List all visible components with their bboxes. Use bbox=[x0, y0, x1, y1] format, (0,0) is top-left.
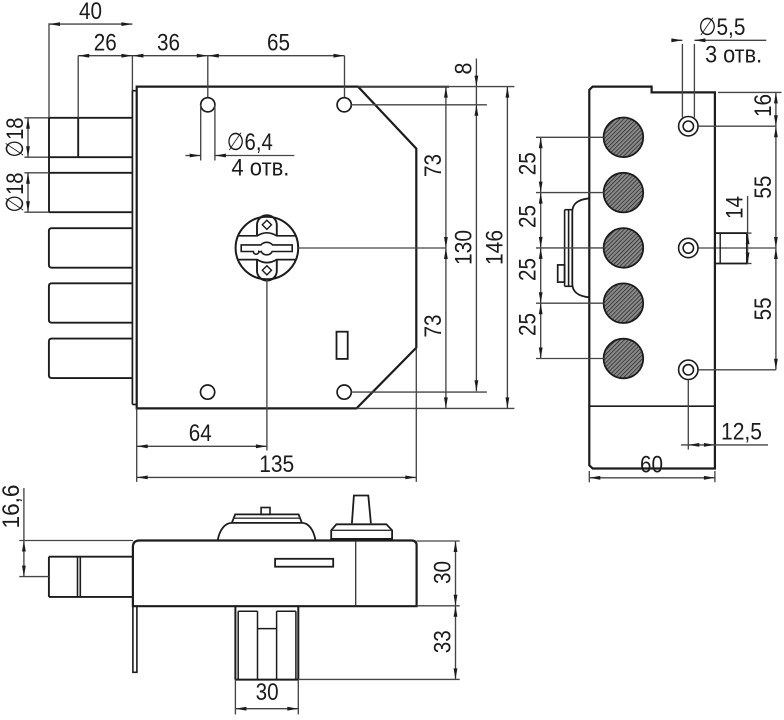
svg-text:130: 130 bbox=[450, 230, 477, 265]
bolt hole hatched circle 5 bbox=[604, 339, 644, 379]
screw hole 3 center line bbox=[699, 369, 776, 371]
bolt hole hatched circle 1 bbox=[604, 118, 644, 158]
mounting hole 2 bbox=[337, 98, 351, 112]
dim line 8/130 bbox=[475, 59, 477, 392]
cylinder key bar slot with boss and notches bbox=[241, 242, 292, 254]
bottom view: turn knob stem bbox=[352, 496, 371, 524]
bottom view: vertical-bolt housing bbox=[234, 606, 236, 679]
dim chain 16/55/55 bbox=[775, 92, 777, 369]
center line circle 5 bbox=[536, 358, 604, 360]
dim Ø5,5 line bbox=[671, 39, 682, 41]
svg-text:∅5,5: ∅5,5 bbox=[698, 14, 745, 41]
screw hole 3 bbox=[679, 360, 698, 379]
center line circle 4 bbox=[536, 302, 604, 304]
svg-text:14: 14 bbox=[722, 196, 749, 219]
svg-text:∅18: ∅18 bbox=[2, 118, 29, 158]
screw hole 2 center line bbox=[699, 247, 776, 249]
bottom view: bolt center line bbox=[19, 576, 49, 578]
cylinder center line down bbox=[266, 280, 268, 451]
cylinder horizontal band chords with bumps bbox=[238, 233, 296, 236]
bottom view: cylinder dome cover bbox=[218, 523, 316, 540]
svg-text:∅6,4: ∅6,4 bbox=[227, 129, 273, 156]
bottom view: faceplate strip bbox=[133, 606, 137, 672]
cylinder top diamond bbox=[262, 220, 271, 229]
bottom view: bolt bbox=[49, 556, 133, 558]
dim 30/33 extensions (right) bbox=[417, 540, 460, 542]
extension line to hole 2 bbox=[344, 56, 346, 98]
svg-text:40: 40 bbox=[79, 0, 102, 25]
bolt 1 (top, round deadbolt) bbox=[24, 117, 132, 119]
bottom view: turn knob base bbox=[331, 524, 392, 539]
bolt hole hatched circle 4 bbox=[604, 283, 644, 323]
svg-text:65: 65 bbox=[267, 30, 290, 57]
svg-text:12,5: 12,5 bbox=[721, 419, 762, 446]
cylinder vertical stadium slot (bottom part) bbox=[257, 260, 277, 281]
bolt hole hatched circle 2 bbox=[604, 173, 644, 213]
center line circle 2 bbox=[536, 192, 604, 194]
dim 30 (bottom) bbox=[234, 680, 236, 715]
svg-text:25: 25 bbox=[515, 313, 542, 336]
bottom view: dome nub bbox=[261, 508, 270, 515]
center line circle 3 bbox=[536, 247, 604, 249]
main view: thick top edge segment toward dims bbox=[358, 86, 449, 88]
svg-text:146: 146 bbox=[481, 230, 508, 265]
dim chain 25x4 bbox=[540, 137, 542, 358]
svg-text:55: 55 bbox=[750, 176, 777, 199]
dim 64 bbox=[137, 445, 267, 447]
dim 12,5 bbox=[687, 380, 689, 450]
svg-text:33: 33 bbox=[430, 630, 457, 653]
bolt 3 bbox=[49, 228, 132, 268]
extension line top edge right bbox=[358, 86, 514, 88]
svg-text:73: 73 bbox=[420, 315, 447, 338]
svg-text:25: 25 bbox=[515, 152, 542, 175]
faceplate outline (right view) bbox=[589, 87, 715, 469]
bottom view: top edge extension left bbox=[19, 540, 133, 542]
bolt hole hatched circle 3 bbox=[604, 228, 644, 268]
bolt 1/2 left face line + dim 40 extension bbox=[48, 23, 50, 118]
main view: lock body outline bbox=[137, 87, 417, 409]
extension line to hole 1 bbox=[207, 56, 209, 98]
dim line 73/73 bbox=[445, 87, 447, 409]
extension line of dim 26 down to bolt 1 bbox=[77, 56, 79, 118]
bolt 4 bbox=[49, 283, 132, 322]
svg-text:30: 30 bbox=[430, 561, 457, 584]
svg-text:36: 36 bbox=[157, 30, 180, 57]
bolt 5 bbox=[49, 339, 132, 379]
svg-text:16: 16 bbox=[750, 94, 777, 117]
cylinder bottom diamond bbox=[262, 266, 271, 275]
dim 135 bbox=[137, 476, 417, 478]
svg-text:16,6: 16,6 bbox=[0, 485, 25, 529]
svg-text:64: 64 bbox=[189, 420, 212, 447]
screw hole 1 bbox=[679, 117, 698, 136]
latch window rectangle bbox=[337, 332, 348, 359]
svg-text:73: 73 bbox=[420, 154, 447, 177]
dim chain 30/33 bbox=[455, 541, 457, 679]
svg-text:55: 55 bbox=[750, 297, 777, 320]
screw hole 2 bbox=[679, 238, 698, 257]
mounting hole 1 bbox=[201, 98, 215, 112]
svg-text:25: 25 bbox=[515, 258, 542, 281]
extension line bottom edge right bbox=[357, 407, 515, 409]
dim Ø18 (bolt 2) bbox=[27, 173, 29, 212]
svg-text:4 отв.: 4 отв. bbox=[231, 155, 289, 182]
bottom view: lock body bbox=[133, 541, 417, 607]
bolt 1 head step bbox=[77, 118, 79, 157]
side profile bump of lock case bbox=[572, 198, 589, 297]
main view: faceplate bottom tick bbox=[132, 404, 136, 406]
strike protrusion on faceplate bbox=[715, 233, 747, 263]
center line circle 1 bbox=[536, 136, 604, 138]
extension line bottom holes center bbox=[351, 391, 487, 393]
svg-text:26: 26 bbox=[94, 30, 117, 57]
svg-text:3 отв.: 3 отв. bbox=[705, 41, 762, 68]
bottom view: key slot bbox=[275, 559, 333, 567]
main view: faceplate left edge bbox=[131, 91, 133, 405]
extension line body left down bbox=[136, 408, 138, 482]
main view: faceplate top tick bbox=[132, 90, 136, 92]
dim 14 bbox=[747, 196, 749, 264]
cylinder vertical stadium slot (top part) bbox=[257, 215, 277, 236]
dim Ø6,4 line bbox=[185, 155, 200, 157]
extension line body right down bbox=[415, 348, 417, 482]
screw hole 1 center line bbox=[699, 125, 776, 127]
svg-text:60: 60 bbox=[640, 452, 663, 479]
svg-text:30: 30 bbox=[256, 679, 279, 706]
faceplate inner horizontal line bbox=[589, 405, 715, 407]
bottom view: spindle line bbox=[355, 541, 357, 607]
mounting hole 4 (bottom right) bbox=[337, 385, 351, 399]
mounting hole 3 (bottom left) bbox=[201, 385, 215, 399]
main view: faceplate left edge extension bbox=[131, 56, 133, 91]
dim 60 bbox=[588, 471, 590, 482]
svg-text:8: 8 bbox=[450, 63, 477, 75]
svg-text:25: 25 bbox=[515, 205, 542, 228]
dim line 26/36/65 bbox=[78, 55, 344, 57]
svg-text:135: 135 bbox=[259, 451, 294, 478]
side profile tab bbox=[558, 265, 565, 282]
dim Ø18 (bolt 1) bbox=[27, 118, 29, 157]
svg-text:∅18: ∅18 bbox=[2, 173, 29, 213]
dim Ø5,5 extension lines bbox=[681, 44, 683, 118]
dim 40 bbox=[49, 23, 132, 25]
dim Ø6,4 tangent extension lines bbox=[200, 105, 202, 161]
key cylinder outer circle bbox=[236, 217, 299, 280]
extension line hole2 center bbox=[351, 104, 487, 106]
extension line faceplate top right bbox=[718, 91, 782, 93]
bolt 2 bbox=[24, 172, 132, 174]
cylinder center line right bbox=[298, 247, 446, 249]
dim 16,6 bbox=[23, 488, 25, 577]
dim line 146 bbox=[506, 87, 508, 409]
